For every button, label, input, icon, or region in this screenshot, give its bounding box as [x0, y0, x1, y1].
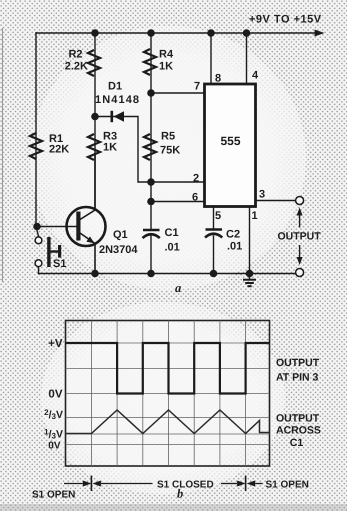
svg-text:S1 CLOSED: S1 CLOSED	[157, 480, 214, 491]
junction node pin2	[147, 178, 155, 186]
svg-text:555: 555	[220, 134, 240, 148]
top rail arrowhead	[315, 30, 325, 37]
page edge artifact bottom band	[0, 504, 347, 511]
resistor R5	[144, 134, 156, 160]
output terminal circle bottom	[296, 269, 304, 277]
wire Q1 base	[36, 226, 77, 228]
arrowhead left from left tick	[92, 481, 101, 487]
page edge artifact line left	[2, 28, 4, 282]
svg-text:b: b	[177, 487, 183, 501]
capacitor C2 top plate	[206, 228, 223, 231]
transistor Q1 circle	[67, 207, 106, 246]
resistor R2	[88, 50, 100, 76]
wire pin7 horizontal	[151, 92, 205, 94]
waveform grid vertical lines	[91, 321, 245, 467]
svg-text:1K: 1K	[159, 61, 173, 73]
resistor R3	[88, 134, 100, 160]
switch S1 terminal circles	[35, 237, 42, 244]
junction node Q1 base / S1	[33, 223, 41, 231]
junction node R4/R5/pin7	[147, 89, 155, 97]
svg-text:0V: 0V	[48, 389, 62, 401]
S1 interval annotation line left	[64, 483, 84, 485]
svg-text:1K: 1K	[103, 142, 117, 154]
svg-text:1: 1	[252, 210, 258, 222]
svg-text:75K: 75K	[160, 145, 180, 157]
switch S1 contact bar	[47, 237, 50, 267]
arrowhead left from right tick	[247, 481, 256, 487]
svg-text:OUTPUT: OUTPUT	[278, 231, 322, 243]
svg-text:OUTPUT: OUTPUT	[276, 357, 320, 369]
svg-text:R4: R4	[159, 49, 174, 61]
svg-text:6: 6	[192, 192, 198, 204]
junction pin4 top rail	[243, 29, 251, 37]
wire pin4 vertical	[246, 33, 248, 84]
svg-text:a: a	[175, 281, 181, 295]
svg-text:1N4148: 1N4148	[95, 94, 140, 106]
svg-text:ACROSS: ACROSS	[276, 425, 321, 437]
svg-text:D1: D1	[108, 81, 122, 93]
wire C2 bottom	[213, 236, 215, 274]
resistor R1	[30, 133, 42, 159]
svg-text:AT PIN 3: AT PIN 3	[276, 372, 319, 384]
wire pin5 to C2	[213, 207, 215, 230]
wire S1 top stem	[36, 227, 39, 237]
wire pin8 vertical	[210, 33, 212, 84]
svg-text:C1: C1	[290, 437, 304, 449]
wire top rail +V	[36, 32, 316, 34]
IC U1 555 timer box	[205, 84, 256, 207]
svg-text:4: 4	[252, 70, 259, 82]
svg-text:R2: R2	[68, 49, 82, 61]
junction pin1/ground bottom rail	[246, 270, 254, 278]
wire bottom rail	[39, 273, 296, 275]
output arrow up	[299, 214, 301, 228]
wire S1 bottom stem	[38, 267, 40, 274]
junction node pin6/C1	[147, 198, 155, 206]
wire pin1 vertical to ground rail	[249, 207, 251, 274]
waveform square wave (output at pin 3)	[66, 343, 270, 394]
waveform grid horizontal lines	[66, 343, 270, 445]
svg-text:C1: C1	[165, 227, 179, 239]
svg-text:.01: .01	[165, 242, 180, 254]
wire R4 branch vertical	[150, 33, 152, 93]
output terminal circle top	[296, 197, 304, 205]
svg-text:7: 7	[194, 81, 200, 93]
svg-text:+9V TO +15V: +9V TO +15V	[249, 14, 322, 26]
arrowhead right into right tick	[237, 481, 246, 487]
wire R2 branch vertical	[94, 33, 96, 117]
svg-text:.01: .01	[227, 241, 242, 253]
svg-text:0V: 0V	[48, 441, 61, 452]
junction C1 bottom rail	[147, 270, 155, 278]
svg-text:2.2K: 2.2K	[65, 61, 88, 73]
arrowhead right into left tick	[83, 481, 92, 487]
S1 open line right part	[255, 483, 262, 485]
wire R3 branch vertical (R3 to Q1 collector region)	[94, 117, 96, 208]
ground symbol	[243, 274, 256, 287]
S1 closed line left part	[101, 483, 153, 485]
svg-text:22K: 22K	[49, 144, 69, 156]
transistor Q1 emitter arrowhead	[86, 236, 94, 243]
svg-text:3: 3	[259, 189, 265, 201]
wire D1 link (diode branch L-shape)	[95, 117, 151, 183]
waveform triangle wave (output across C1)	[66, 410, 270, 434]
S1 closed line right part	[221, 483, 237, 485]
output arrow down	[299, 245, 301, 259]
diode D1	[111, 111, 125, 122]
svg-text:+V: +V	[48, 338, 63, 350]
wire left vertical (top rail to base node)	[35, 33, 37, 227]
junction emitter bottom rail	[91, 270, 99, 278]
capacitor C1 curved plate	[143, 234, 160, 238]
capacitor C2 curved plate	[205, 234, 222, 238]
switch S1 actuator stem	[51, 250, 59, 252]
resistor R4	[144, 49, 156, 75]
transistor Q1 base bar	[76, 212, 80, 241]
junction R4 top rail	[147, 29, 155, 37]
wire R5 branch vertical	[150, 93, 152, 182]
transistor Q1 emitter lead	[80, 233, 95, 274]
svg-text:S1 OPEN: S1 OPEN	[32, 490, 75, 501]
svg-text:Q1: Q1	[113, 229, 128, 241]
svg-text:S1: S1	[53, 258, 66, 270]
svg-text:8: 8	[215, 73, 221, 85]
wire pin3 horizontal	[256, 200, 296, 202]
svg-text:2N3704: 2N3704	[99, 244, 138, 256]
junction C2 bottom rail	[210, 270, 218, 278]
junction R2 top rail	[91, 29, 99, 37]
capacitor C1 top plate	[143, 229, 160, 232]
transistor Q1 collector lead	[80, 155, 95, 220]
wire pin6 horizontal	[151, 201, 205, 203]
wire pin6 to C1	[150, 182, 152, 230]
waveform graph frame	[66, 321, 270, 467]
wire pin2 horizontal	[151, 181, 205, 183]
junction pin8 top rail	[207, 29, 215, 37]
svg-text:5: 5	[215, 210, 221, 222]
svg-text:R5: R5	[161, 131, 175, 143]
wire C1 bottom	[150, 236, 152, 274]
junction node R2/R3/D1	[91, 113, 99, 121]
svg-text:S1 OPEN: S1 OPEN	[266, 480, 309, 491]
right tick	[245, 476, 247, 492]
svg-text:2: 2	[193, 173, 199, 185]
switch S1 actuator cap	[58, 245, 61, 258]
svg-text:OUTPUT: OUTPUT	[276, 413, 320, 425]
svg-text:C2: C2	[226, 229, 240, 241]
left tick	[90, 476, 92, 492]
